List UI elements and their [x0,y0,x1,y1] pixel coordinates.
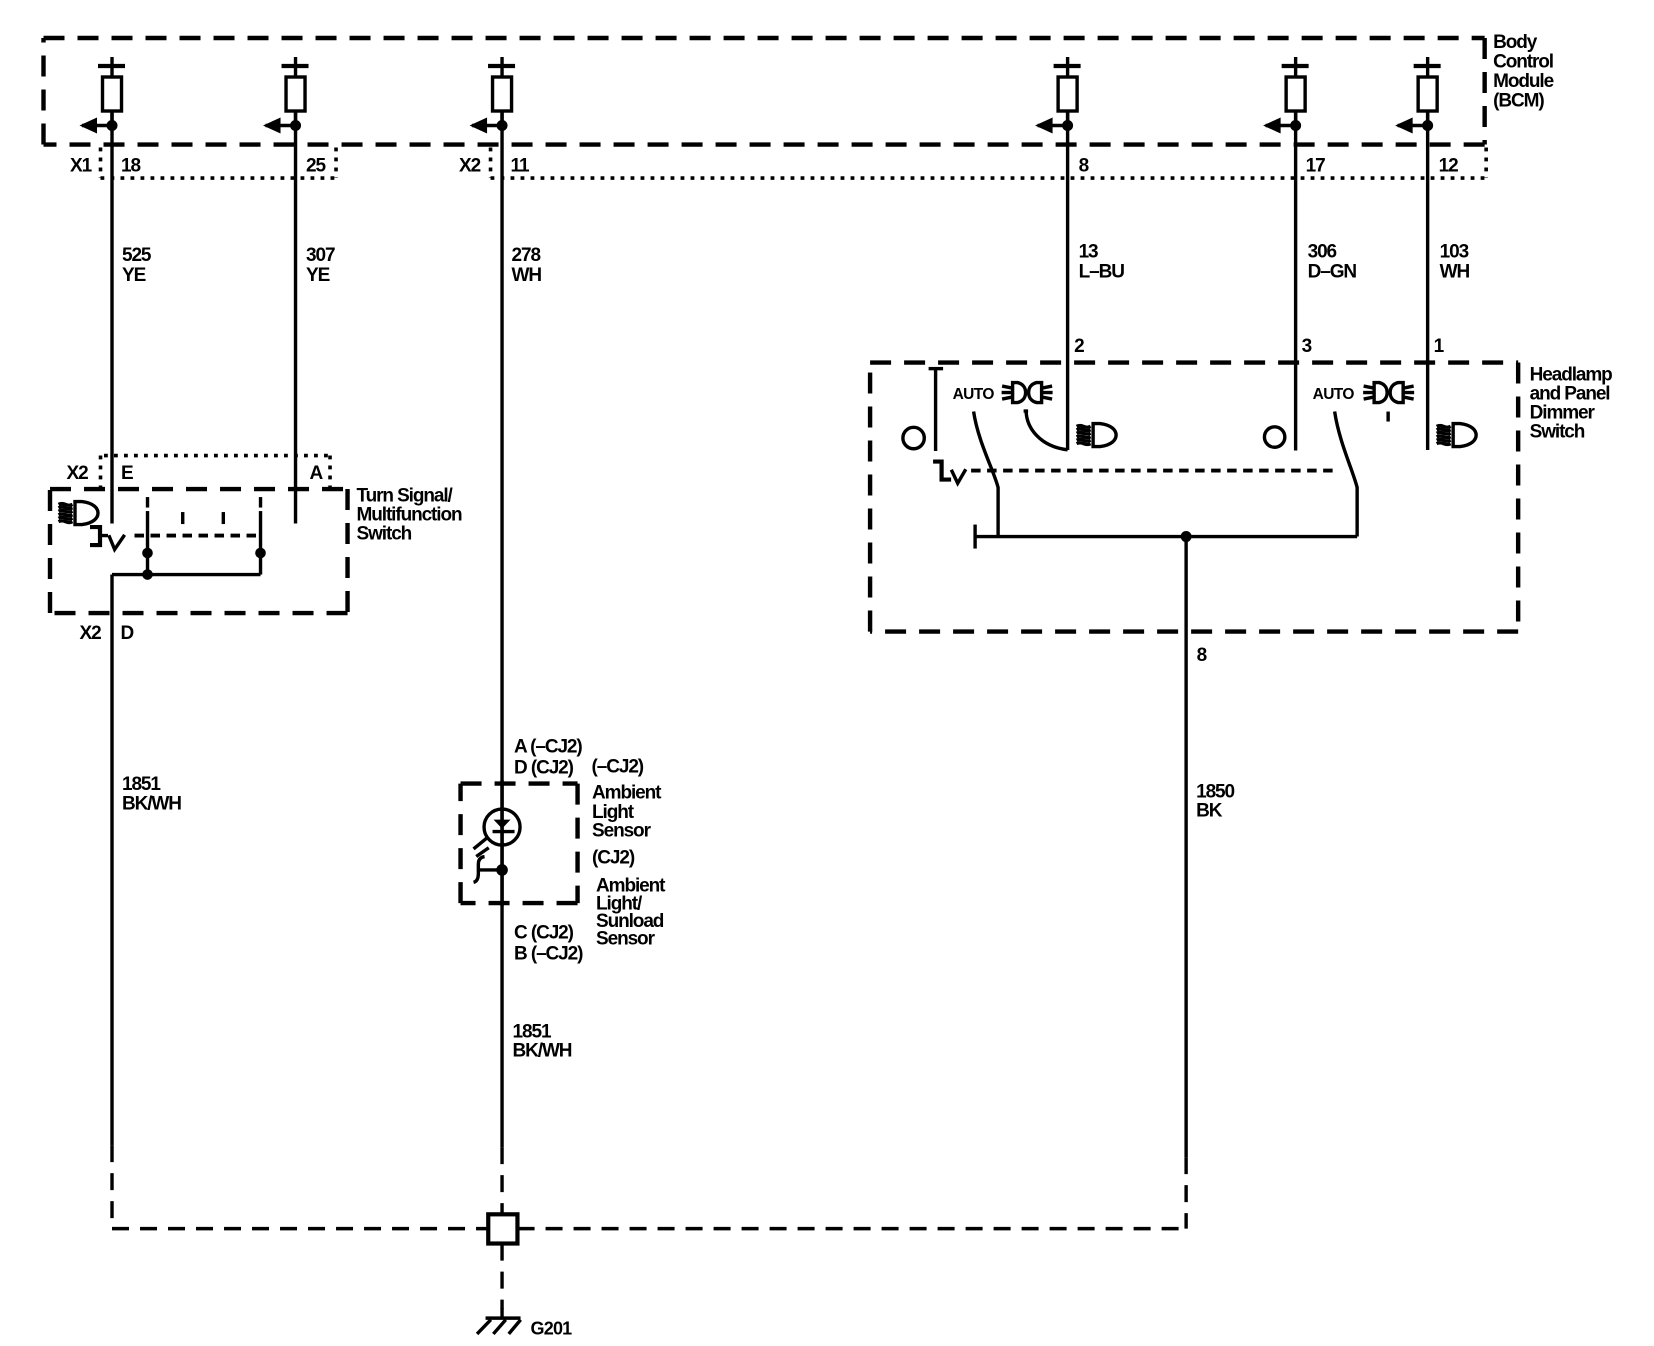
connector X2 band [491,148,1487,179]
switch contact left [146,511,149,575]
svg-text:YE: YE [122,265,146,286]
svg-text:G201: G201 [531,1319,573,1339]
Ambient Light/Sunload Sensor label [596,876,666,950]
junction dot left contact [142,548,153,559]
Headlamp switch label [1530,365,1613,443]
wire switch output [112,573,261,576]
BCM driver U1 pin X1-18 [80,57,126,134]
svg-text:D–GN: D–GN [1308,262,1357,283]
BCM driver U3 pin X2-11 [470,57,516,134]
svg-text:YE: YE [306,265,330,286]
wire 306 D-GN [1294,111,1297,451]
ground G201 [477,1308,521,1334]
svg-text:13: 13 [1079,242,1098,263]
switch contact right [259,511,262,575]
svg-text:17: 17 [1306,156,1325,177]
svg-text:E: E [121,463,133,484]
photodiode D1 circle [484,809,520,845]
svg-text:and Panel: and Panel [1530,384,1610,405]
svg-text:Body: Body [1493,32,1538,53]
wire 13 L-BU label [1079,242,1125,283]
headlamp symbol (turn signal flash) [59,502,99,525]
svg-text:Control: Control [1493,52,1553,73]
wire 1850 BK dashed (right drop) [1184,1157,1187,1229]
off contact line left [929,369,944,452]
svg-text:103: 103 [1440,242,1469,263]
wire 525 YE [110,111,113,524]
position mark 2 [222,512,225,524]
BCM driver U4 pin X2-8 [1035,57,1081,134]
svg-text:(CJ2): (CJ2) [592,848,635,869]
svg-text:307: 307 [306,245,335,266]
svg-text:2: 2 [1074,336,1084,357]
svg-text:L–BU: L–BU [1079,262,1125,283]
svg-text:525: 525 [122,245,152,266]
junction dot output [142,569,153,580]
wire 13 L-BU [1066,111,1069,450]
svg-text:278: 278 [512,245,541,266]
wire dashed run to splice (right) [518,1227,1187,1230]
switch arm parking to pin 2 [1024,411,1068,450]
svg-text:AUTO: AUTO [1313,386,1355,403]
svg-text:Multifunction: Multifunction [357,505,462,526]
svg-text:WH: WH [512,265,542,286]
wire to X2-D [110,575,113,1146]
svg-text:25: 25 [306,156,326,177]
svg-text:D: D [121,623,134,644]
svg-text:Dimmer: Dimmer [1530,403,1596,424]
wire 1850 BK label [1196,782,1234,822]
svg-text:12: 12 [1439,156,1458,177]
svg-text:(BCM): (BCM) [1493,91,1544,112]
wire 278/1851 dashed (center drop) [500,1147,503,1214]
svg-text:Ambient: Ambient [592,783,662,804]
Headlamp and Panel Dimmer Switch box [870,363,1518,632]
svg-text:1851: 1851 [122,774,161,795]
svg-text:1850: 1850 [1196,782,1234,803]
light ray 1 [474,838,487,849]
headlamp symbol pin 2 [1077,424,1117,447]
svg-text:A: A [310,463,324,484]
Body Control Module (BCM) box [44,38,1485,145]
switch arm AUTO right [1335,412,1358,537]
wire dashed run to splice (left) [112,1227,488,1230]
off position circle right [1264,427,1284,447]
splice S201 [488,1214,517,1243]
wire 306 D-GN label [1308,242,1357,283]
Ambient Light Sensor label [592,783,662,842]
switch contact right (dash) [259,497,262,508]
light ray 2 [476,848,489,857]
wire 1851 BK/WH label (left) [122,774,181,815]
svg-text:Switch: Switch [1530,422,1585,443]
wire switch common [975,535,1357,538]
svg-text:Module: Module [1493,71,1553,92]
svg-text:306: 306 [1308,242,1337,263]
wire 103 WH label [1440,242,1470,283]
svg-text:11: 11 [511,156,530,177]
svg-text:Headlamp: Headlamp [1530,365,1613,386]
wire 1851 BK/WH dashed (left drop) [110,1145,113,1229]
BCM driver U5 pin X2-17 [1263,57,1309,134]
wire 1851 BK/WH label (center) [513,1022,572,1062]
junction dot right contact [255,548,266,559]
BCM label [1493,32,1553,112]
svg-text:3: 3 [1302,336,1312,357]
svg-text:WH: WH [1440,262,1470,283]
wire 307 YE label [306,245,335,286]
svg-text:X2: X2 [67,463,89,484]
svg-text:BK/WH: BK/WH [122,794,181,815]
svg-text:8: 8 [1079,156,1089,177]
mechanical link (turn signal) [135,534,259,538]
BCM driver U6 pin X2-12 [1395,57,1441,134]
svg-text:Sensor: Sensor [592,821,652,842]
wire 278 WH label [512,245,542,286]
parking contact tick right [1386,412,1389,422]
switch arm AUTO left [974,412,999,537]
svg-text:B (–CJ2): B (–CJ2) [514,944,583,965]
svg-text:D (CJ2): D (CJ2) [514,758,574,779]
svg-text:X2: X2 [80,623,102,644]
Turn Signal switch label [357,486,462,545]
photodiode D1 cathode bar [493,830,515,833]
wire 525 YE label [122,245,152,286]
parking lamp symbol right [1363,383,1414,403]
svg-text:8: 8 [1197,645,1207,666]
Turn Signal/Multifunction Switch box [50,489,348,613]
photodiode D1 anode triangle [494,820,511,829]
wire 278 WH thicker run [500,780,503,906]
detent symbol (headlamp switch) [933,462,966,484]
svg-text:Switch: Switch [357,524,412,545]
svg-text:1851: 1851 [513,1022,552,1043]
svg-text:AUTO: AUTO [953,386,995,403]
sensor ground hook [474,857,503,883]
wire 103 WH [1426,111,1429,450]
connector X2 band (turn signal switch) [101,456,331,489]
svg-text:BK: BK [1196,801,1223,822]
parking lamp symbol left [1002,383,1053,403]
svg-text:Turn Signal/: Turn Signal/ [357,486,454,507]
Ambient Light Sensor box [461,784,578,904]
junction dot pin 8 [1181,531,1192,542]
wire dashed to ground [500,1244,503,1310]
svg-text:C (CJ2): C (CJ2) [514,923,574,944]
switch contact left (dash) [146,497,149,508]
mechanical link (headlamp switch) [971,469,1337,473]
off position circle left [903,427,924,448]
svg-text:BK/WH: BK/WH [513,1041,572,1062]
svg-text:Sensor: Sensor [596,929,656,950]
svg-text:A (–CJ2): A (–CJ2) [514,737,582,758]
contact tick left [973,525,976,549]
junction dot sensor [496,864,508,876]
svg-text:(–CJ2): (–CJ2) [592,757,644,778]
connector X1 band [101,148,337,179]
wire 307 YE [294,111,297,524]
svg-text:X2: X2 [459,156,481,177]
position mark 1 [181,512,184,524]
svg-text:1: 1 [1434,336,1445,357]
detent symbol [90,527,125,549]
wire to pin 8 [1184,537,1187,1158]
BCM driver U2 pin X1-25 [263,57,309,134]
headlamp symbol pin 1 [1437,424,1477,447]
wire 278 WH [500,111,503,1147]
svg-text:18: 18 [121,156,140,177]
svg-text:X1: X1 [70,156,93,177]
